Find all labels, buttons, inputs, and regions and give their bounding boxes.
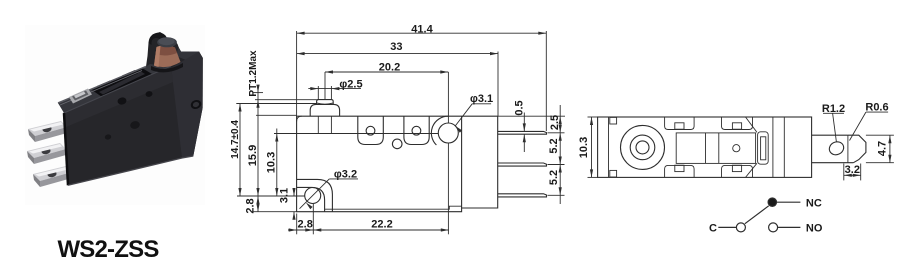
svg-text:NO: NO <box>806 223 823 235</box>
svg-text:10.3: 10.3 <box>266 152 278 173</box>
svg-text:4.7: 4.7 <box>877 141 889 156</box>
svg-text:2.8: 2.8 <box>298 218 313 230</box>
svg-text:2.5: 2.5 <box>549 115 561 130</box>
svg-text:33: 33 <box>390 41 402 53</box>
svg-text:5.2: 5.2 <box>548 170 560 185</box>
svg-text:14.7±0.4: 14.7±0.4 <box>230 120 241 159</box>
svg-text:3.2: 3.2 <box>845 164 860 176</box>
svg-text:10.3: 10.3 <box>578 137 590 158</box>
svg-text:φ3.2: φ3.2 <box>334 169 357 181</box>
svg-text:20.2: 20.2 <box>379 62 400 74</box>
svg-text:0.5: 0.5 <box>514 100 526 115</box>
svg-text:41.4: 41.4 <box>411 23 433 35</box>
svg-text:5.2: 5.2 <box>548 138 560 153</box>
svg-text:PT1.2Max: PT1.2Max <box>248 50 259 97</box>
svg-text:φ3.1: φ3.1 <box>470 93 493 105</box>
svg-text:22.2: 22.2 <box>371 218 392 230</box>
svg-text:15.9: 15.9 <box>247 145 259 166</box>
svg-text:C: C <box>709 223 717 235</box>
svg-text:3.1: 3.1 <box>279 188 291 203</box>
svg-text:NC: NC <box>806 197 822 209</box>
svg-text:WS2-ZSS: WS2-ZSS <box>57 236 159 263</box>
svg-text:φ2.5: φ2.5 <box>339 78 362 90</box>
